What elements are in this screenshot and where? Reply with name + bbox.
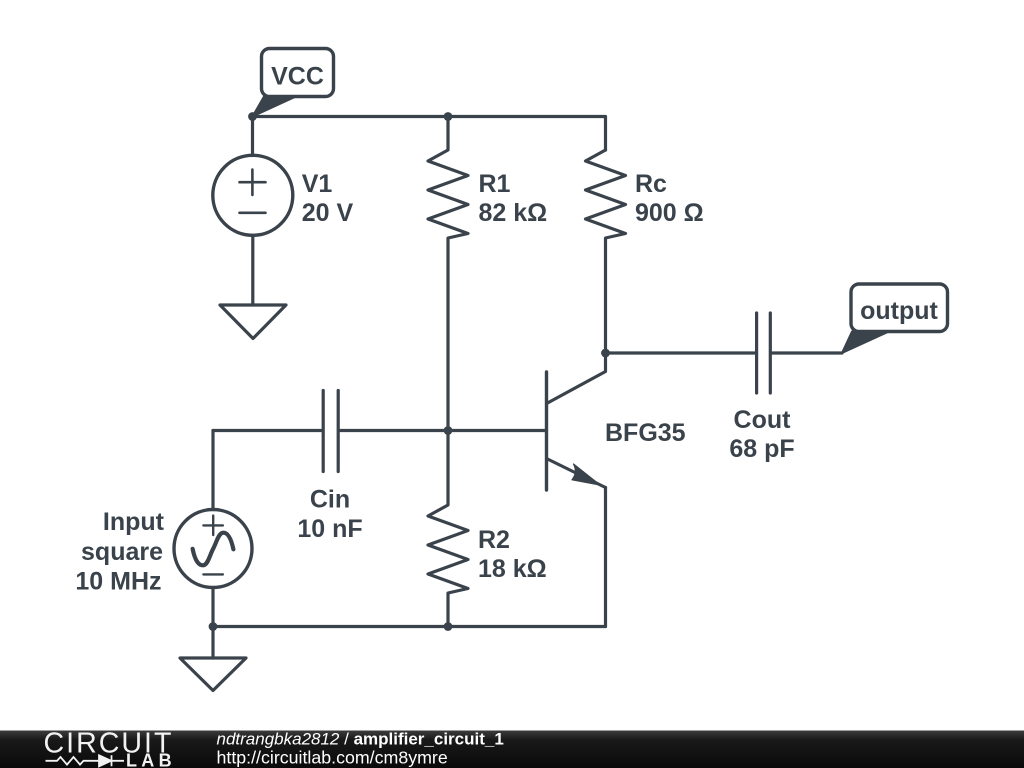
- wire input source top: [211, 431, 214, 510]
- svg-text:82 kΩ: 82 kΩ: [479, 199, 548, 227]
- svg-text:LAB: LAB: [126, 751, 176, 768]
- wire collector to Cout: [606, 351, 755, 354]
- capacitor Cout: [757, 313, 771, 393]
- wire top rail VCC net: [253, 117, 606, 151]
- svg-text:http://circuitlab.com/cm8ymre: http://circuitlab.com/cm8ymre: [217, 747, 448, 767]
- svg-text:18 kΩ: 18 kΩ: [478, 555, 547, 583]
- footer bar: [0, 731, 1024, 768]
- node bottom dot R2: [444, 622, 453, 631]
- wire VCC to V1 top: [251, 117, 254, 156]
- flag output callout: [842, 284, 948, 353]
- wire Cout to output flag: [772, 351, 842, 354]
- node junction dot at R1 top: [444, 112, 453, 121]
- svg-text:R1: R1: [479, 170, 511, 198]
- wire stub to input ground: [211, 627, 214, 659]
- svg-text:V1: V1: [302, 170, 333, 198]
- svg-text:square: square: [81, 538, 163, 566]
- wire base rail left of Cin: [213, 429, 321, 432]
- svg-text:10 nF: 10 nF: [297, 515, 362, 543]
- svg-text:VCC: VCC: [271, 63, 324, 91]
- svg-text:Cin: Cin: [310, 486, 350, 514]
- resistor R2: [428, 431, 468, 627]
- voltage source V1: [213, 155, 293, 235]
- node bottom dot left: [209, 622, 218, 631]
- resistor R1: [428, 117, 468, 431]
- node collector junction dot: [601, 349, 610, 358]
- svg-text:BFG35: BFG35: [605, 419, 686, 447]
- svg-text:R2: R2: [478, 526, 510, 554]
- source V2 input: [174, 510, 252, 588]
- svg-text:900 Ω: 900 Ω: [635, 199, 704, 227]
- wire V1 bottom to ground: [251, 235, 254, 305]
- svg-text:Rc: Rc: [635, 170, 667, 198]
- ground below input: [180, 658, 246, 691]
- svg-text:10 MHz: 10 MHz: [75, 568, 161, 596]
- svg-text:20 V: 20 V: [302, 199, 354, 227]
- node VCC junction dot left: [248, 112, 257, 121]
- logo resistor-diode glyph: [46, 755, 125, 766]
- svg-text:ndtrangbka2812 / amplifier_cir: ndtrangbka2812 / amplifier_circuit_1: [217, 730, 504, 749]
- wire Cin to base: [340, 429, 546, 432]
- transistor Q1 BFG35: [547, 353, 606, 490]
- wire bottom rail: [213, 625, 606, 628]
- resistor Rc: [586, 150, 626, 353]
- flag VCC callout: [253, 49, 334, 117]
- wire input source bottom: [211, 588, 214, 627]
- svg-text:Input: Input: [103, 508, 165, 536]
- node junction dot base-R1-R2: [444, 426, 453, 435]
- wire emitter down to bottom rail: [604, 488, 607, 627]
- svg-text:output: output: [860, 297, 938, 325]
- ground below V1: [220, 305, 286, 339]
- svg-text:Cout: Cout: [734, 406, 792, 434]
- svg-text:68 pF: 68 pF: [729, 435, 794, 463]
- capacitor Cin: [323, 391, 338, 472]
